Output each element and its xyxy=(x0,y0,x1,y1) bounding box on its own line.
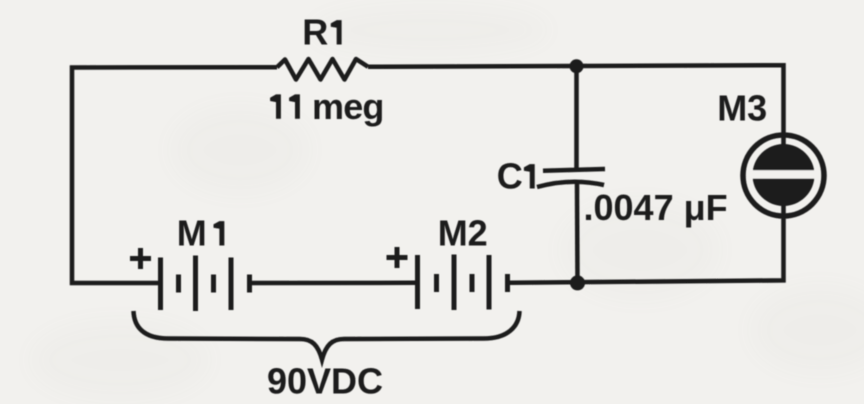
node: bottom junction dot xyxy=(570,275,585,290)
brace for battery group xyxy=(134,311,520,360)
svg-text:meg: meg xyxy=(312,86,384,127)
battery M2 xyxy=(418,255,508,311)
svg-text:M: M xyxy=(177,213,207,254)
battery M1 xyxy=(161,256,250,312)
wire: capacitor bottom lead xyxy=(575,184,580,285)
value label .0047 uF xyxy=(584,187,728,228)
wire: left side loop (top-left segment, left vertical, bottom-left segment) xyxy=(72,67,277,283)
value label 11 meg xyxy=(270,86,384,127)
svg-text:M2: M2 xyxy=(438,213,488,254)
label C1 xyxy=(497,156,535,197)
svg-text:M3: M3 xyxy=(717,88,767,129)
label R1 xyxy=(302,12,341,53)
svg-text:90VDC: 90VDC xyxy=(267,361,383,402)
polarity plus sign of M1 xyxy=(130,248,151,269)
polarity plus sign of M2 xyxy=(387,247,408,268)
wire: bottom segment between M1 and M2 xyxy=(252,281,416,286)
svg-text:.0047 μF: .0047 μF xyxy=(584,187,728,228)
wire: top-right segment from resistor to top-right corner and down to M3 xyxy=(368,65,784,150)
label M3 xyxy=(717,88,767,129)
svg-text:R: R xyxy=(302,12,328,53)
wire: capacitor top lead xyxy=(574,64,579,169)
meter M3 xyxy=(743,135,824,216)
svg-text:C: C xyxy=(497,156,523,197)
resistor R1 xyxy=(277,59,368,80)
capacitor C1 xyxy=(537,169,605,187)
label M1 xyxy=(177,213,225,254)
label M2 xyxy=(438,213,488,254)
value label 90VDC xyxy=(267,361,383,402)
node: top junction dot xyxy=(570,59,584,73)
wire: right vertical below M3 to bottom-right corner xyxy=(510,203,784,283)
